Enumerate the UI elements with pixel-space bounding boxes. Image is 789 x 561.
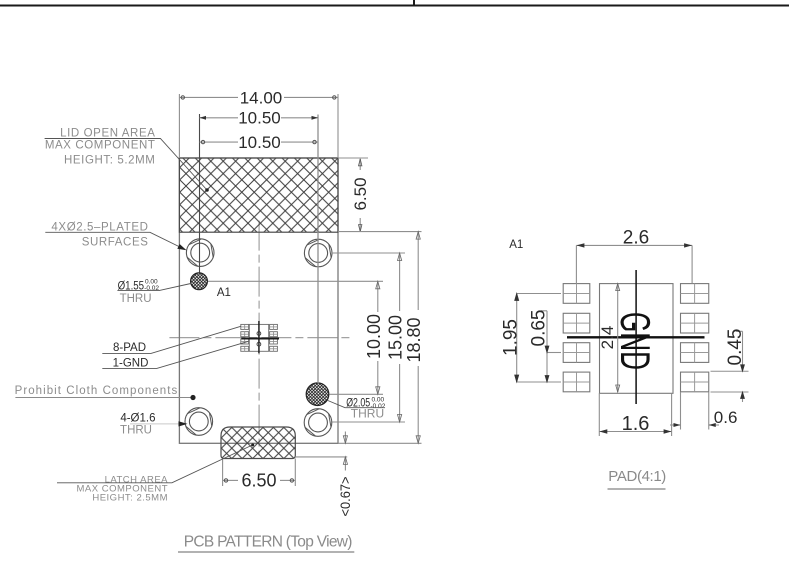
- svg-text:6.50: 6.50: [241, 471, 276, 491]
- svg-text:A1: A1: [509, 239, 523, 251]
- svg-text:1.95: 1.95: [500, 319, 521, 356]
- svg-text:10.50: 10.50: [238, 109, 281, 128]
- svg-text:LID OPEN AREA: LID OPEN AREA: [60, 128, 155, 140]
- svg-text:1.6: 1.6: [622, 413, 650, 435]
- svg-text:PAD(4:1): PAD(4:1): [608, 468, 666, 485]
- svg-text:SURFACES: SURFACES: [82, 237, 149, 249]
- svg-text:HEIGHT: 2.5MM: HEIGHT: 2.5MM: [92, 493, 168, 504]
- svg-text:18.80: 18.80: [404, 317, 424, 362]
- svg-text:15.00: 15.00: [386, 315, 406, 360]
- svg-text:2.4: 2.4: [598, 326, 617, 350]
- svg-text:1-GND: 1-GND: [113, 357, 149, 369]
- svg-text:10.50: 10.50: [238, 133, 281, 152]
- svg-text:4XØ2.5–PLATED: 4XØ2.5–PLATED: [51, 221, 148, 233]
- svg-text:<0.67>: <0.67>: [337, 477, 353, 517]
- svg-text:GND: GND: [612, 312, 659, 370]
- svg-text:10.00: 10.00: [364, 314, 384, 359]
- svg-text:Prohibit Cloth Components: Prohibit Cloth Components: [15, 385, 179, 397]
- svg-text:0.45: 0.45: [725, 329, 746, 366]
- svg-text:THRU: THRU: [120, 293, 152, 305]
- svg-text:A1: A1: [217, 287, 231, 299]
- svg-text:HEIGHT: 5.2MM: HEIGHT: 5.2MM: [64, 155, 156, 167]
- svg-text:4-Ø1.6: 4-Ø1.6: [120, 412, 155, 424]
- svg-text:14.00: 14.00: [240, 88, 283, 107]
- svg-text:0.65: 0.65: [529, 310, 550, 347]
- svg-text:PCB PATTERN (Top View): PCB PATTERN (Top View): [184, 534, 353, 551]
- svg-text:THRU: THRU: [351, 406, 384, 420]
- svg-text:8-PAD: 8-PAD: [113, 342, 146, 354]
- svg-text:THRU: THRU: [120, 424, 152, 436]
- svg-text:6.50: 6.50: [351, 177, 370, 210]
- svg-text:0.6: 0.6: [714, 408, 738, 427]
- svg-text:MAX COMPONENT: MAX COMPONENT: [45, 140, 156, 152]
- svg-text:2.6: 2.6: [623, 228, 649, 249]
